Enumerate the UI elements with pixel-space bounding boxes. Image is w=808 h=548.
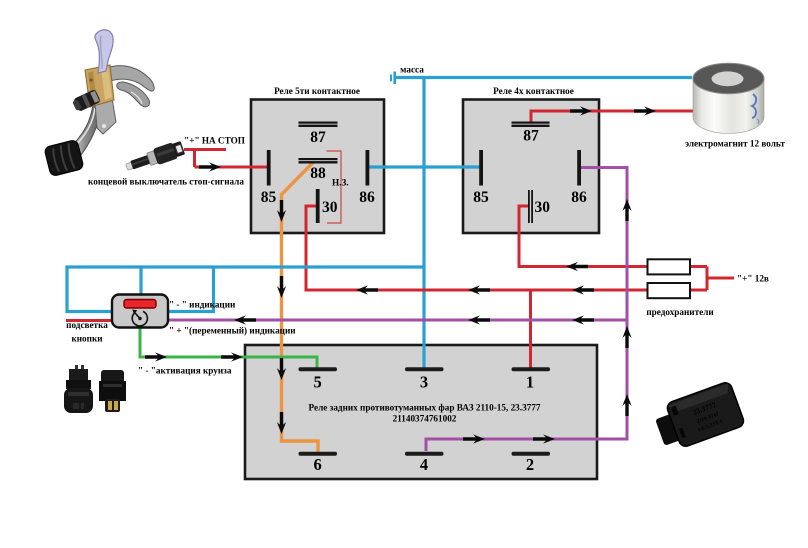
svg-text:4: 4 [420,455,428,474]
svg-text:1: 1 [526,373,534,392]
svg-text:электромагнит 12 вольт: электромагнит 12 вольт [685,139,785,149]
svg-text:Н.З.: Н.З. [332,178,349,188]
svg-text:подсветка: подсветка [66,320,108,330]
svg-text:3: 3 [420,373,428,392]
svg-text:"+" НА СТОП: "+" НА СТОП [184,136,245,146]
svg-text:предохранители: предохранители [646,307,714,317]
svg-text:30: 30 [322,199,338,216]
svg-text:"+" 12в: "+" 12в [737,274,769,284]
svg-text:5: 5 [313,373,321,392]
svg-text:6: 6 [313,455,321,474]
svg-text:Реле задних противотуманных фа: Реле задних противотуманных фар ВАЗ 2110… [309,403,541,413]
svg-text:Реле 5ти контактное: Реле 5ти контактное [274,86,360,96]
svg-text:86: 86 [359,189,375,206]
svg-text:88: 88 [310,165,326,182]
svg-text:85: 85 [261,189,277,206]
svg-text:кнопки: кнопки [71,334,103,344]
svg-text:30: 30 [535,199,551,216]
svg-text:масса: масса [400,65,424,75]
svg-text:Реле 4х контактное: Реле 4х контактное [493,86,574,96]
svg-text:концевой выключатель стоп-сигн: концевой выключатель стоп-сигнала [88,177,244,187]
svg-text:87: 87 [523,128,539,145]
svg-text:21140374761002: 21140374761002 [393,414,457,424]
svg-text:86: 86 [571,189,587,206]
svg-text:2: 2 [526,455,534,474]
svg-text:87: 87 [310,129,326,146]
svg-text:" - " индикации: " - " индикации [169,300,236,310]
svg-text:" - "активация круиза: " - "активация круиза [138,366,232,376]
svg-text:85: 85 [473,189,489,206]
svg-text:" + "(переменный) индикации: " + "(переменный) индикации [169,326,296,336]
